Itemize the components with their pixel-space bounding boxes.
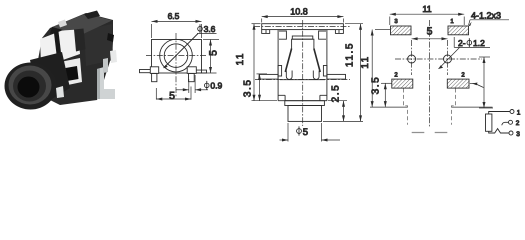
body hidden step profile right <box>451 89 455 125</box>
barrel outer face <box>5 63 57 110</box>
barrel cylinder side <box>30 52 70 106</box>
connector main dark body <box>38 13 113 105</box>
terminal 1 circle <box>510 110 514 114</box>
white insert band <box>40 30 80 65</box>
jack hole circle d3.6 <box>164 44 188 68</box>
right dark notch <box>107 33 114 42</box>
front view drawing <box>235 6 363 141</box>
svg-text:5: 5 <box>303 127 308 138</box>
body hidden step profile left <box>403 89 407 125</box>
right wall hook <box>319 31 326 39</box>
horizontal centerline through holes <box>395 58 482 60</box>
dim 6.5 extension lines <box>151 24 153 38</box>
dim 6.5 line <box>152 20 202 22</box>
dim 3.5 footprint extension line <box>381 82 392 84</box>
schematic symbol <box>486 109 521 138</box>
left foot pin <box>152 73 157 81</box>
top cover glint <box>58 20 67 28</box>
insert lower shading <box>41 55 58 65</box>
dim text phi5 <box>297 126 302 135</box>
metal pin behind leg <box>103 58 108 73</box>
svg-text:4-1.2x3: 4-1.2x3 <box>471 11 501 21</box>
top flange <box>262 24 344 30</box>
svg-text:3.6: 3.6 <box>204 24 216 34</box>
body bottom extension line right <box>451 106 492 108</box>
PCB footprint drawing <box>360 4 509 133</box>
leader 2-phi1.2 tick <box>453 37 455 47</box>
svg-text:6.5: 6.5 <box>168 11 180 21</box>
terminal 2 circle <box>509 120 513 124</box>
svg-text:0.9: 0.9 <box>210 81 222 91</box>
spring contact zigzag terminal 3 <box>489 129 509 133</box>
connector body (side) <box>152 40 202 74</box>
dim 5 line <box>412 38 448 40</box>
left foot block <box>150 67 158 74</box>
center post top <box>292 39 314 48</box>
vertical centerline <box>175 33 177 97</box>
svg-text:1: 1 <box>517 109 521 116</box>
dim 10.8 line <box>262 16 344 18</box>
leader 2-phi1.2 diagonal <box>439 48 460 69</box>
black window in lower block <box>66 66 79 81</box>
white foot under body <box>56 86 64 98</box>
svg-text:2: 2 <box>516 120 520 127</box>
sleeve contact rectangle <box>486 114 492 131</box>
svg-text:3: 3 <box>516 131 520 138</box>
pad 2 right <box>447 79 469 88</box>
dim 2.5 extension lines <box>328 100 347 102</box>
metal leg shading <box>97 69 100 100</box>
white lower block <box>60 58 82 86</box>
side view drawing <box>140 11 223 102</box>
dim 3.5 footprint line <box>384 83 386 107</box>
pad 1 <box>448 26 469 35</box>
dim 10.8 extension lines <box>261 19 263 23</box>
dim 11 left extension lines <box>252 23 261 25</box>
svg-text:10.8: 10.8 <box>290 6 308 16</box>
dim 11 footprint extension line top <box>375 29 390 31</box>
right bright tab <box>110 50 117 63</box>
leader 4-1.2x3 underline <box>470 19 509 21</box>
dim phi5 arrows <box>280 139 289 141</box>
left wall hook <box>279 31 286 39</box>
leader arrowhead <box>164 65 168 68</box>
dim phi0.9 arrows <box>176 89 189 91</box>
right mounting tab <box>196 70 206 73</box>
pad 2 row extension <box>470 83 475 85</box>
right hole axis <box>447 40 449 75</box>
barrel outer circle <box>160 39 193 72</box>
insert frame bar right <box>74 29 86 52</box>
svg-text:5: 5 <box>427 25 433 37</box>
metal leg L-shape <box>97 67 115 99</box>
dim text phi0.9 <box>205 81 210 90</box>
left contact foot loop <box>286 71 292 80</box>
barrel inner ring <box>13 71 46 102</box>
svg-text:11: 11 <box>235 52 246 66</box>
left hole axis <box>411 40 413 75</box>
pad 2 left <box>392 79 413 88</box>
left inner wall rib <box>278 66 282 77</box>
leader 2-phi1.2 underline <box>454 46 490 48</box>
right smd tab <box>327 74 346 79</box>
dim 2.5 line <box>343 101 345 122</box>
horizontal centerline <box>146 55 207 57</box>
flange right wing <box>335 30 343 34</box>
svg-text:11.5: 11.5 <box>345 42 356 67</box>
dim 5 bottom line <box>156 98 191 100</box>
dim text phi3.6 <box>198 24 203 33</box>
dim 5 right line <box>210 40 212 74</box>
hole right <box>444 55 452 63</box>
svg-text:5: 5 <box>169 90 175 102</box>
barrel body <box>288 106 322 122</box>
right contact foot loop <box>313 71 319 80</box>
svg-text:3.5: 3.5 <box>371 76 382 95</box>
pad 3 <box>391 26 412 35</box>
diameter leader line <box>164 34 198 69</box>
barrel flange band <box>285 101 325 106</box>
svg-text:2.5: 2.5 <box>331 84 342 103</box>
svg-text:1.2: 1.2 <box>473 38 485 48</box>
left mounting tab <box>140 70 152 73</box>
photo of 3.5mm jack connector <box>5 11 118 110</box>
flange left wing <box>262 30 270 34</box>
interior bottom line <box>280 79 325 81</box>
dim phi5 extension lines <box>287 123 289 142</box>
switch contact hook terminal 2 <box>502 122 509 125</box>
dim 11 footprint line <box>371 30 373 108</box>
svg-text:3.5: 3.5 <box>242 78 253 97</box>
horizontal centerline flange <box>254 26 350 28</box>
insert frame bar left <box>54 32 62 59</box>
jack hole <box>18 77 40 98</box>
leader 4-1.2x3 <box>469 20 470 25</box>
dim 11 left line <box>253 24 255 101</box>
body bottom edge with corner steps <box>278 95 327 100</box>
right body facet <box>84 24 113 66</box>
terminal 3 circle <box>509 131 513 135</box>
hole left <box>408 55 416 63</box>
dim 11 top line <box>390 13 464 15</box>
top cover top face <box>52 14 112 36</box>
left contact leg <box>285 49 291 73</box>
dim 11.5 line <box>360 24 362 122</box>
leader arrow to pad 2 row <box>476 84 484 88</box>
svg-text:11: 11 <box>360 55 371 69</box>
dim 4 right line <box>483 57 485 108</box>
wire tip to terminal 1 <box>489 112 510 115</box>
dim 11.5 extension lines <box>345 23 363 25</box>
horizontal centerline tabs <box>255 79 350 81</box>
center post cap <box>292 36 313 39</box>
right inner wall rib <box>323 66 327 77</box>
left smd tab <box>259 74 278 79</box>
top cover peak lump <box>84 11 100 20</box>
top cover front face <box>50 27 82 41</box>
dim phi0.9 extension lines <box>188 79 190 93</box>
right foot block <box>187 67 196 74</box>
dim 3.5 line <box>259 74 261 101</box>
body walls <box>278 30 327 101</box>
body bottom extension line left <box>370 106 408 108</box>
right foot pin <box>189 73 195 81</box>
svg-text:11: 11 <box>422 4 431 14</box>
dim 5 bottom extension lines <box>155 88 157 100</box>
right contact leg <box>314 49 320 73</box>
dim 11 top extension lines <box>389 17 391 26</box>
svg-text:5: 5 <box>208 50 220 56</box>
dim 5 right extension lines <box>203 39 219 41</box>
barrel hidden bottom line <box>412 132 448 134</box>
vertical centerline <box>302 20 304 126</box>
dim 3.5 extension line <box>257 73 268 75</box>
barrel rim light ring <box>9 66 52 105</box>
vertical centerline <box>429 20 431 127</box>
dim 4 right extension lines <box>479 56 490 58</box>
svg-text:2-: 2- <box>458 38 466 48</box>
leader underline <box>197 33 217 35</box>
